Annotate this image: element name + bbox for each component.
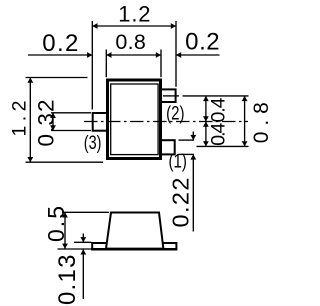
extension line body bottom left: [26, 161, 104, 163]
label 0.4 upper (rotated): [208, 97, 230, 122]
label 0.22 (rotated): [168, 178, 194, 228]
dimension line 0.13: [80, 234, 86, 300]
extension line lead2 tip: [175, 21, 177, 87]
dimension line 0.22: [190, 132, 196, 232]
lead (2) right upper, top view: [160, 89, 176, 102]
extension line body right: [160, 50, 162, 78]
label 0.8 right (rotated): [250, 102, 273, 143]
dimension line 1.2 left: [27, 78, 33, 163]
dimension line 0.2 top right: [176, 52, 220, 58]
side view left lead: [92, 243, 110, 249]
svg-text:0.2: 0.2: [42, 30, 78, 57]
extension line lead3 tip: [91, 21, 93, 110]
label (1): [169, 151, 187, 173]
extension line seating plane: [58, 248, 93, 250]
svg-text:0.32: 0.32: [34, 100, 59, 147]
lead (3) left, top view: [93, 113, 108, 131]
side view body: [106, 213, 163, 249]
extension line lead3 bottom: [51, 130, 91, 132]
label 0.4 lower (rotated): [208, 123, 230, 146]
package body inner line, top view: [111, 84, 158, 155]
svg-text:0.8: 0.8: [250, 102, 272, 143]
dimension line 0.32: [50, 113, 56, 131]
dimension line 1.2 top: [92, 23, 176, 29]
label 1.2 top: [118, 2, 150, 27]
label (3): [84, 132, 102, 154]
extension line lead2 center: [163, 95, 249, 97]
label 0.32 (rotated): [34, 100, 59, 147]
extension line lead1 bottom: [179, 153, 195, 155]
extension line lead top side view: [74, 241, 92, 243]
extension line side body top: [62, 211, 109, 213]
extension line body top left: [26, 77, 88, 79]
svg-text:(2): (2): [166, 103, 184, 125]
dimension line 0.8 right: [242, 96, 248, 146]
dimension line 0.5: [62, 212, 68, 249]
extension line lead3 top: [51, 112, 91, 114]
label 0.5 (rotated): [43, 206, 69, 242]
label 0.8 top: [115, 30, 146, 54]
svg-text:0.4: 0.4: [208, 97, 230, 122]
dimension line 0.8 top: [106, 52, 161, 58]
dimension line 0.2 top left: [28, 52, 92, 58]
extension line lead1 top: [179, 139, 195, 141]
svg-text:0.4: 0.4: [208, 123, 230, 146]
svg-text:0.13: 0.13: [54, 255, 81, 306]
label 1.2 left (rotated): [9, 101, 31, 137]
svg-text:0.22: 0.22: [168, 178, 194, 228]
lead (1) right lower, top view: [160, 140, 175, 154]
svg-text:1.2: 1.2: [9, 101, 31, 137]
svg-text:0.5: 0.5: [43, 206, 69, 242]
package body outline, top view: [108, 80, 161, 159]
label (2): [166, 103, 184, 125]
extension line lead1 center: [197, 145, 249, 147]
svg-text:0.2: 0.2: [185, 28, 220, 55]
svg-text:1.2: 1.2: [118, 2, 150, 27]
extension line body left: [105, 50, 107, 78]
side view bottom heavy line: [91, 248, 177, 251]
label 0.13 (rotated): [54, 255, 81, 306]
center line: [84, 121, 248, 123]
label 0.2 top left: [42, 30, 78, 57]
dimension line 0.4/0.4: [203, 96, 209, 146]
svg-text:(3): (3): [84, 132, 102, 154]
label 0.2 top right: [185, 28, 220, 55]
side view right lead: [156, 243, 176, 249]
svg-text:0.8: 0.8: [115, 30, 146, 54]
